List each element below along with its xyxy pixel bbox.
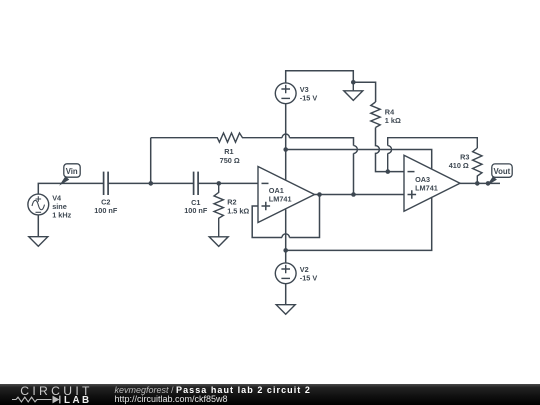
ground under V2 bbox=[276, 305, 295, 315]
svg-text:http://circuitlab.com/ckf85w8: http://circuitlab.com/ckf85w8 bbox=[115, 394, 228, 404]
label V4 bbox=[52, 193, 71, 219]
node junction line B bbox=[283, 147, 288, 152]
capacitor C1 bbox=[184, 172, 208, 216]
svg-text:410 Ω: 410 Ω bbox=[449, 161, 469, 170]
ground near V3 bbox=[344, 82, 363, 100]
wire OA1 positive feedback loop bbox=[252, 195, 319, 238]
footer credit line bbox=[115, 385, 311, 404]
node junction OA3 inverting input bbox=[386, 169, 391, 174]
voltage source V3 bbox=[275, 83, 317, 104]
wire OA1 V+ pin down to V2 bbox=[285, 209, 287, 263]
svg-text:100 nF: 100 nF bbox=[184, 206, 208, 215]
svg-text:750 Ω: 750 Ω bbox=[220, 156, 240, 165]
resistor R1 bbox=[151, 133, 282, 165]
svg-text:LAB: LAB bbox=[64, 395, 92, 405]
wire R4 bottom lead with hop over line B bbox=[376, 128, 388, 172]
svg-text:LM741: LM741 bbox=[415, 183, 438, 192]
wire riser to R1 feedback line bbox=[150, 138, 152, 184]
op-amp OA1 bbox=[258, 167, 315, 223]
wire hop over OA1 V+ rail bbox=[282, 234, 289, 238]
node junction Vout tap bbox=[486, 181, 491, 186]
resistor R4 bbox=[371, 102, 401, 128]
net flag Vin bbox=[59, 164, 80, 186]
svg-text:Vout: Vout bbox=[494, 167, 511, 176]
voltage source V2 bbox=[275, 263, 317, 284]
wire OA1 output to OA3 non-inverting input bbox=[315, 194, 405, 196]
node junction feedback tap x353 bbox=[351, 192, 356, 197]
wire hop over line B on x353 riser bbox=[354, 146, 358, 154]
net flag Vout bbox=[487, 164, 512, 186]
svg-text:-15 V: -15 V bbox=[300, 94, 318, 103]
wire V3 rail down to OA1 V- pin bbox=[285, 104, 287, 180]
resistor R2 bbox=[214, 183, 249, 236]
wire C2 to C1 bbox=[108, 182, 194, 184]
svg-text:-15 V: -15 V bbox=[300, 274, 318, 283]
node junction feedback tap left bbox=[149, 181, 154, 186]
ground under R2 bbox=[209, 237, 228, 247]
node junction R2 tap bbox=[217, 181, 222, 186]
svg-text:1 kΩ: 1 kΩ bbox=[385, 116, 401, 125]
wire V2 to OA3 V+ pin bbox=[286, 197, 432, 251]
node junction V2 top bbox=[283, 248, 288, 253]
voltage source V4 bbox=[28, 194, 49, 215]
svg-text:V2: V2 bbox=[300, 265, 309, 274]
node junction ground tap bbox=[351, 80, 356, 85]
wire R3 feedback riser with hop bbox=[388, 138, 478, 172]
node junction OA1 output bbox=[317, 192, 322, 197]
svg-text:Vin: Vin bbox=[66, 167, 78, 176]
wire hop over V3 rail on R1 line bbox=[282, 134, 289, 138]
capacitor C2 bbox=[94, 172, 118, 216]
svg-text:1.5 kΩ: 1.5 kΩ bbox=[227, 206, 249, 215]
wire to R4 top bbox=[353, 82, 375, 102]
wire V2 bottom lead bbox=[285, 284, 287, 305]
node junction R3 bottom bbox=[475, 181, 480, 186]
wire C1 to OA1 inverting input bbox=[198, 182, 258, 184]
resistor R3 bbox=[449, 148, 482, 183]
svg-text:1 kHz: 1 kHz bbox=[52, 211, 71, 220]
wire V3 top to ground corner bbox=[286, 71, 354, 83]
ground under V4 bbox=[29, 237, 48, 247]
wire to OA3 inverting input bbox=[388, 171, 404, 173]
svg-text:R4: R4 bbox=[385, 107, 395, 116]
wire R1 line to corner x353 bbox=[290, 138, 354, 146]
svg-text:V4: V4 bbox=[52, 193, 62, 202]
svg-text:100 nF: 100 nF bbox=[94, 206, 118, 215]
svg-text:LM741: LM741 bbox=[269, 194, 292, 203]
wire down to OA1 output node bbox=[353, 153, 355, 194]
footer bar bbox=[0, 384, 540, 405]
wire V4 bottom lead bbox=[37, 215, 39, 237]
wire supply line B to OA3 V- pin bbox=[286, 150, 432, 169]
CircuitLab logo resistor squiggle and diode bbox=[12, 396, 60, 404]
wire V4 top lead bbox=[38, 183, 103, 194]
wire OA3 output bbox=[460, 182, 500, 184]
svg-text:V3: V3 bbox=[300, 85, 309, 94]
op-amp OA3 bbox=[404, 155, 460, 211]
